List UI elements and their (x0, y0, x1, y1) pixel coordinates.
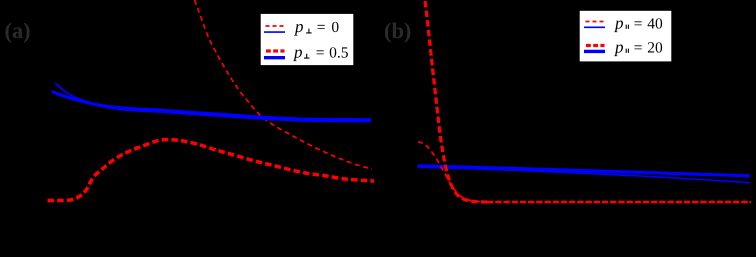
svg-text:(a): (a) (5, 18, 31, 43)
svg-text:40: 40 (647, 15, 663, 32)
svg-text:=: = (316, 44, 325, 61)
curve b: thin red dashed p_par=40 (418, 142, 490, 202)
legend box a (260, 13, 354, 66)
curve b: flat red line (both curves overlapped) (487, 201, 751, 204)
legend a entry2 red thick dashed (266, 49, 285, 52)
legend b entry1 red thin dashed (586, 21, 604, 23)
svg-text:p: p (294, 17, 304, 36)
curve b: thick blue p_par=20 (418, 166, 751, 176)
svg-text:0.5: 0.5 (329, 44, 349, 61)
svg-text:=: = (634, 39, 643, 56)
svg-text:p: p (614, 37, 624, 56)
curve a: thin red dashed p_perp=0 (decay) (195, 0, 373, 169)
svg-text:=: = (634, 15, 643, 32)
legend a entry1 red thin dashed (266, 25, 284, 27)
curve a: thick blue p_perp=0.5 (52, 92, 371, 121)
legend a entry1 blue thin line (264, 31, 285, 33)
legend box b (579, 10, 672, 62)
svg-text:=: = (317, 19, 326, 36)
curve b: thin blue p_par=40 (418, 167, 751, 183)
svg-text:(b): (b) (384, 18, 411, 43)
curve b: thick red dashed p_par=20 (steep drop) (425, 1, 490, 202)
curve a: thick red dashed p_perp=0.5 (hump) (48, 140, 375, 201)
svg-text:0: 0 (331, 19, 339, 36)
curve a: thin blue p_perp=0 (55, 83, 371, 119)
svg-text:p: p (614, 13, 624, 32)
svg-text:20: 20 (647, 39, 663, 56)
legend a entry2 blue thick line (264, 56, 285, 59)
legend b entry2 blue thick line (584, 50, 605, 53)
svg-text:p: p (293, 42, 303, 61)
legend b entry2 red thick dashed (586, 44, 605, 47)
legend b entry1 blue thin line (584, 26, 605, 28)
